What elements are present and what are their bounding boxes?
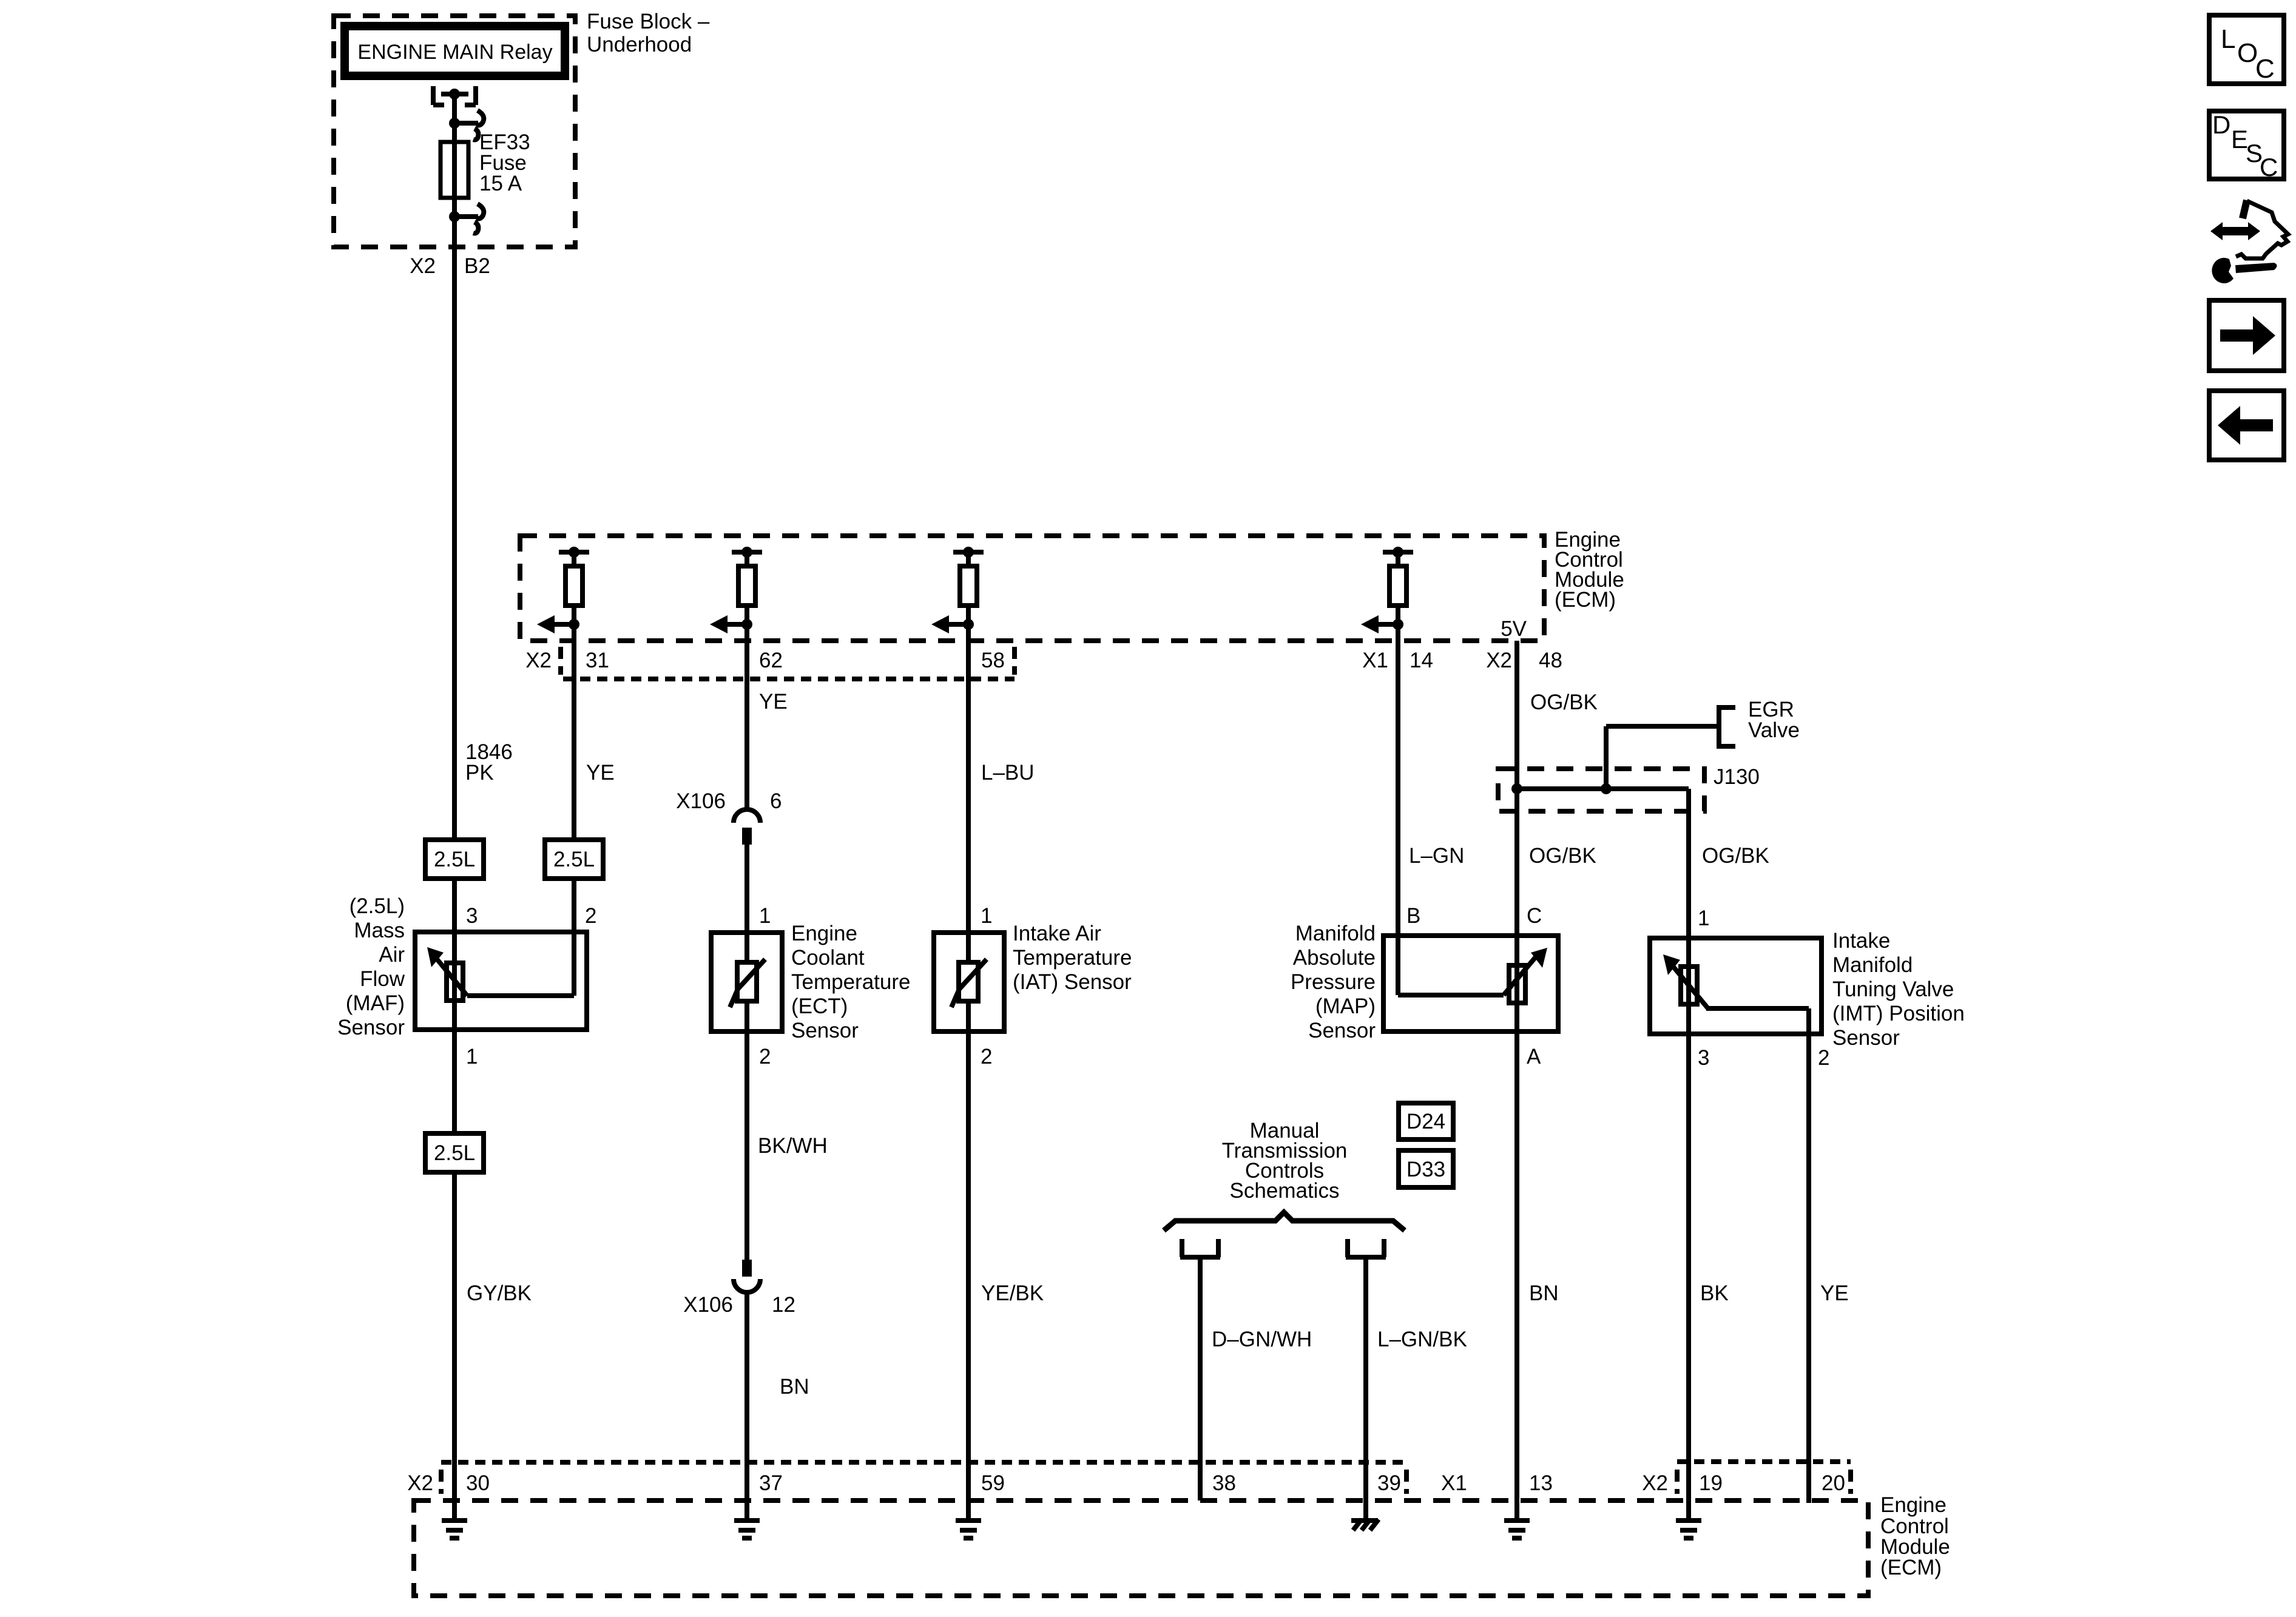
- svg-text:Coolant: Coolant: [791, 946, 865, 970]
- svg-text:C: C: [1527, 904, 1542, 928]
- svg-text:C: C: [2260, 153, 2278, 181]
- MAP sensor box: [1383, 936, 1558, 1031]
- wire EGR valve drop: [1604, 726, 1609, 789]
- svg-text:2: 2: [1818, 1046, 1829, 1070]
- svg-text:2.5L: 2.5L: [553, 848, 595, 871]
- bottom pin dotted box right: [1677, 1462, 1851, 1494]
- svg-text:B2: B2: [464, 254, 490, 278]
- wire BN MAP A to ECM X1-13: [1517, 1031, 1559, 1521]
- svg-text:13: 13: [1529, 1471, 1553, 1495]
- svg-text:BK: BK: [1700, 1281, 1729, 1305]
- EGR valve label: [1748, 698, 1800, 742]
- bottom pin labels: [407, 1471, 1845, 1495]
- svg-text:X2: X2: [525, 649, 552, 672]
- fuse EF33 label: [479, 130, 530, 195]
- wire L-GN/BK to ECM 39: [1366, 1259, 1467, 1521]
- svg-text:BK/WH: BK/WH: [758, 1134, 828, 1158]
- ECM bottom label: [1880, 1493, 1950, 1579]
- svg-text:YE: YE: [759, 690, 788, 714]
- svg-text:Sensor: Sensor: [1308, 1019, 1376, 1042]
- svg-text:2.5L: 2.5L: [434, 848, 475, 871]
- wire L-BU ECM 58 to IAT pin 1: [968, 624, 1035, 933]
- svg-text:D24: D24: [1406, 1110, 1445, 1133]
- wire BK IMT 3 to ECM X2-19: [1689, 1034, 1729, 1521]
- svg-text:Temperature: Temperature: [1013, 946, 1132, 970]
- svg-text:39: 39: [1377, 1471, 1401, 1495]
- IAT sensor box: [934, 933, 1004, 1031]
- resistor R4: [1361, 547, 1413, 633]
- wire YE/BK IAT to ECM 59: [968, 1031, 1044, 1521]
- wire fuse to X2 B2: [452, 198, 457, 247]
- svg-text:(MAP): (MAP): [1315, 994, 1376, 1018]
- 2.5L spec box lower: [425, 1133, 484, 1172]
- svg-text:J130: J130: [1714, 765, 1760, 789]
- svg-text:Sensor: Sensor: [1832, 1026, 1900, 1050]
- svg-text:Mass: Mass: [354, 919, 405, 942]
- wire GY/BK to ECM 30: [454, 1172, 532, 1521]
- svg-text:Schematics: Schematics: [1230, 1179, 1340, 1203]
- IMT sensor box: [1650, 938, 1822, 1034]
- icon DESC box: [2209, 110, 2284, 181]
- wire label 1846 PK: [465, 740, 513, 785]
- svg-text:1: 1: [981, 904, 992, 928]
- wire BN X106 to ECM 37: [747, 1292, 809, 1521]
- D24 reference box: [1399, 1103, 1453, 1139]
- svg-text:Intake Air: Intake Air: [1013, 922, 1101, 945]
- svg-text:Air: Air: [379, 943, 405, 967]
- svg-text:37: 37: [759, 1471, 783, 1495]
- MAF variable resistor element: [427, 932, 574, 1030]
- ground G37: [734, 1521, 760, 1538]
- svg-text:Absolute: Absolute: [1293, 946, 1376, 970]
- svg-text:14: 14: [1410, 649, 1433, 672]
- svg-text:D33: D33: [1406, 1158, 1445, 1181]
- MAP sensor labels: [1291, 922, 1376, 1042]
- splice S2 with connector clip: [449, 211, 460, 222]
- 2.5L spec box upper YE: [545, 840, 603, 879]
- svg-text:ENGINE MAIN Relay: ENGINE MAIN Relay: [357, 41, 552, 64]
- relay K: ENGINE MAIN Relay: [345, 26, 565, 76]
- svg-text:L–BU: L–BU: [981, 761, 1035, 785]
- chassis ground G39: [1351, 1519, 1379, 1530]
- resistor R2: [710, 547, 762, 633]
- svg-text:X1: X1: [1441, 1471, 1467, 1495]
- svg-text:YE: YE: [586, 761, 615, 785]
- svg-text:30: 30: [466, 1471, 490, 1495]
- svg-text:Fuse Block –: Fuse Block –: [587, 10, 710, 33]
- svg-text:X1: X1: [1362, 649, 1388, 672]
- svg-text:(2.5L): (2.5L): [349, 894, 405, 918]
- MAF sensor labels: [337, 894, 405, 1039]
- wire OG/BK J130 to IMT pin 1: [1689, 789, 1769, 938]
- wire OG/BK J130 to MAP pin C: [1517, 789, 1596, 936]
- svg-text:58: 58: [981, 649, 1005, 672]
- svg-text:Intake: Intake: [1832, 929, 1890, 953]
- svg-text:2: 2: [759, 1045, 771, 1068]
- svg-text:(ECT): (ECT): [791, 994, 848, 1018]
- svg-text:1: 1: [759, 904, 771, 928]
- IMT pin labels 3 2: [1698, 1046, 1829, 1070]
- relay output terminal bracket: [433, 86, 476, 105]
- icon arrow left box: [2209, 391, 2284, 460]
- svg-text:(IMT) Position: (IMT) Position: [1832, 1002, 1965, 1025]
- wire 2.5L box to MAF pin 3: [452, 879, 457, 932]
- svg-text:X106: X106: [676, 789, 726, 813]
- resistor R1: [537, 547, 589, 633]
- svg-text:2: 2: [981, 1045, 992, 1068]
- J130 splice pack dashed box: [1498, 769, 1704, 811]
- wire D-GN/WH to ECM 38: [1200, 1259, 1312, 1501]
- svg-text:3: 3: [466, 904, 478, 928]
- svg-text:L–GN: L–GN: [1409, 844, 1464, 868]
- MAP variable resistor element: [1398, 936, 1547, 1031]
- MAF sensor box: [415, 932, 587, 1030]
- D33 reference box: [1399, 1150, 1453, 1187]
- ECM bottom dashed box: [414, 1501, 1868, 1596]
- svg-text:19: 19: [1699, 1471, 1723, 1495]
- connector terminal to D24: [1180, 1239, 1220, 1257]
- svg-text:1: 1: [1698, 906, 1709, 930]
- ground G19: [1676, 1521, 1701, 1538]
- MAP pin labels B C: [1406, 904, 1542, 928]
- svg-text:C: C: [2255, 54, 2275, 84]
- svg-text:(ECM): (ECM): [1880, 1556, 1942, 1579]
- top pin dotted box: [561, 647, 1015, 679]
- wire X106 to ECT pin 1: [745, 845, 749, 933]
- svg-text:2.5L: 2.5L: [434, 1141, 475, 1165]
- svg-text:20: 20: [1822, 1471, 1845, 1495]
- svg-text:15 A: 15 A: [479, 172, 522, 195]
- wire relay to fuse: [452, 94, 457, 142]
- svg-text:(ECM): (ECM): [1555, 588, 1616, 612]
- svg-text:62: 62: [759, 649, 783, 672]
- svg-text:Pressure: Pressure: [1291, 970, 1376, 994]
- svg-text:1: 1: [466, 1045, 478, 1068]
- node J130-A: [1511, 783, 1522, 794]
- svg-text:B: B: [1406, 904, 1420, 928]
- MAF pin labels 3 2: [466, 904, 596, 928]
- wire YE ECM 62 to X106-6: [747, 624, 788, 810]
- icon harness wrench: [2210, 200, 2288, 283]
- bottom pin dotted box left: [441, 1462, 1406, 1494]
- splice S1 with connector clip: [449, 118, 460, 129]
- wire YE IMT 2 to ECM X2-20: [1809, 1034, 1849, 1503]
- X106 6 labels: [676, 789, 782, 813]
- svg-text:(IAT) Sensor: (IAT) Sensor: [1013, 970, 1132, 994]
- svg-text:X2: X2: [1486, 649, 1512, 672]
- wire BK/WH ECT to X106-12: [747, 1031, 828, 1260]
- ground G13: [1504, 1521, 1530, 1538]
- svg-text:X106: X106: [683, 1293, 733, 1317]
- ECT sensor box: [711, 933, 782, 1031]
- resistor R3: [931, 547, 984, 633]
- wire 2.5L to MAF pin 2: [572, 879, 576, 932]
- svg-text:BN: BN: [1529, 1281, 1559, 1305]
- svg-text:PK: PK: [465, 761, 494, 785]
- svg-text:Manifold: Manifold: [1295, 922, 1376, 945]
- ECM top label: [1555, 528, 1624, 612]
- svg-text:D: D: [2212, 110, 2230, 139]
- connector terminal to D33: [1346, 1239, 1386, 1257]
- inline connector X106 pin 6: [734, 809, 760, 845]
- svg-text:5V: 5V: [1501, 617, 1527, 641]
- svg-text:OG/BK: OG/BK: [1529, 844, 1596, 868]
- fuse block label: [587, 10, 710, 56]
- svg-text:2: 2: [585, 904, 596, 928]
- svg-text:X2: X2: [407, 1471, 433, 1495]
- inline connector X106 pin 12: [734, 1260, 760, 1292]
- fuse EF33 15A: [441, 142, 468, 198]
- svg-text:A: A: [1527, 1045, 1541, 1068]
- svg-text:59: 59: [981, 1471, 1005, 1495]
- J130 bus wire: [1517, 786, 1689, 791]
- svg-text:(MAF): (MAF): [346, 991, 405, 1015]
- svg-text:Sensor: Sensor: [791, 1019, 859, 1042]
- ground G59: [956, 1521, 981, 1538]
- svg-text:38: 38: [1212, 1471, 1236, 1495]
- ECM top dashed box: [520, 536, 1544, 641]
- IMT sensor labels: [1832, 929, 1965, 1050]
- svg-text:YE/BK: YE/BK: [981, 1281, 1044, 1305]
- svg-text:Engine: Engine: [1880, 1493, 1947, 1517]
- wire to EGR valve: [1606, 724, 1719, 729]
- svg-text:L: L: [2221, 24, 2235, 54]
- icon LOC box: [2209, 15, 2284, 84]
- pin label X2 B2: [410, 254, 490, 278]
- svg-text:Valve: Valve: [1748, 718, 1800, 742]
- svg-text:31: 31: [586, 649, 609, 672]
- manual transmission controls label: [1222, 1119, 1348, 1203]
- svg-text:Manifold: Manifold: [1832, 953, 1913, 977]
- svg-text:YE: YE: [1820, 1281, 1849, 1305]
- IMT variable resistor element: [1663, 938, 1809, 1034]
- svg-text:OG/BK: OG/BK: [1530, 690, 1598, 714]
- thermistor element IAT: [951, 959, 987, 1007]
- svg-text:3: 3: [1698, 1046, 1709, 1070]
- 2.5L spec box upper MAF: [425, 840, 484, 879]
- svg-text:X2: X2: [1642, 1471, 1668, 1495]
- wire MAF pin1 to 2.5L lower: [452, 1030, 457, 1133]
- ECT sensor labels: [791, 922, 910, 1042]
- svg-text:48: 48: [1539, 649, 1562, 672]
- fuse block underhood dashed box: [334, 16, 575, 247]
- node J130-B: [1601, 783, 1612, 794]
- thermistor element ECT: [730, 959, 765, 1007]
- svg-text:Tuning Valve: Tuning Valve: [1832, 977, 1954, 1001]
- ground G30: [442, 1521, 467, 1538]
- svg-text:6: 6: [770, 789, 782, 813]
- brace: [1164, 1212, 1405, 1230]
- EGR valve terminal bracket: [1719, 705, 1735, 749]
- svg-text:Flow: Flow: [360, 967, 405, 991]
- svg-text:Sensor: Sensor: [337, 1016, 405, 1039]
- wire YE ECM 31 to MAF pin 2: [574, 624, 615, 840]
- svg-text:X2: X2: [410, 254, 436, 278]
- wire OG/BK 5V ECM X2-48 to J130: [1517, 641, 1598, 789]
- top pin labels: [525, 649, 1562, 672]
- svg-text:Underhood: Underhood: [587, 33, 692, 56]
- wire L-GN ECM X1-14 to MAP pin B: [1398, 624, 1464, 936]
- svg-text:Temperature: Temperature: [791, 970, 910, 994]
- svg-text:12: 12: [772, 1293, 795, 1317]
- X106 12 labels: [683, 1293, 795, 1317]
- svg-text:Engine: Engine: [791, 922, 857, 945]
- icon arrow right box: [2209, 300, 2284, 371]
- svg-text:L–GN/BK: L–GN/BK: [1377, 1328, 1467, 1351]
- wire 1846 PK fuse to MAF: [452, 247, 457, 840]
- svg-text:GY/BK: GY/BK: [467, 1281, 532, 1305]
- svg-text:D–GN/WH: D–GN/WH: [1212, 1328, 1312, 1351]
- IAT sensor labels: [1013, 922, 1132, 994]
- svg-text:OG/BK: OG/BK: [1702, 844, 1769, 868]
- svg-text:BN: BN: [780, 1375, 809, 1399]
